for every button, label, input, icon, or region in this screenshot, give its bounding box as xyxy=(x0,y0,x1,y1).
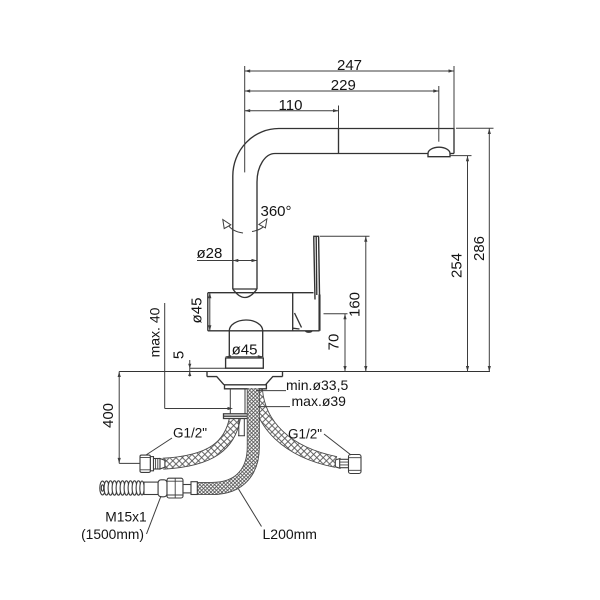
pull-out hose xyxy=(197,388,253,488)
neck right edge xyxy=(262,331,264,357)
arrows d28 xyxy=(233,259,239,262)
arrow max40 xyxy=(228,407,234,410)
aerator housing below spout xyxy=(428,154,450,157)
body bottom edge xyxy=(208,330,320,332)
neck left edge xyxy=(228,331,230,357)
rotation arc left xyxy=(228,225,243,234)
pull-out hose neck xyxy=(183,485,191,493)
leader G1/2 left xyxy=(146,438,172,455)
dim line 247 xyxy=(245,70,454,72)
svg-text:400: 400 xyxy=(100,403,117,428)
svg-text:ø28: ø28 xyxy=(197,245,223,262)
shank tube xyxy=(230,389,245,414)
spout outline outer edge xyxy=(233,129,454,290)
arrows 254 xyxy=(466,156,469,162)
swivel collar arc xyxy=(233,289,257,298)
svg-text:286: 286 xyxy=(471,236,488,261)
arrowheads xyxy=(118,69,491,463)
fitting nut right G1/2 xyxy=(349,455,362,474)
svg-text:247: 247 xyxy=(337,57,362,74)
mounting washer xyxy=(224,414,256,419)
fitting ring left G1/2 xyxy=(150,457,153,471)
svg-text:ø45: ø45 xyxy=(189,298,206,324)
pull-out head joint line xyxy=(338,129,340,154)
rotation arrowhead right xyxy=(259,219,267,228)
svg-text:ø45: ø45 xyxy=(232,342,258,359)
extension 70 top xyxy=(324,313,348,315)
body left edge xyxy=(207,293,209,331)
leader max d39 xyxy=(258,406,290,408)
svg-text:160: 160 xyxy=(347,292,364,317)
dim line d45 body xyxy=(209,293,211,331)
tube body joint line xyxy=(233,288,257,290)
fitting nipple right G1/2 xyxy=(340,459,349,467)
hose guide spring xyxy=(100,481,144,495)
arrows 110 xyxy=(245,109,251,112)
neck transition arc xyxy=(229,320,262,331)
leader min d33-5 xyxy=(256,390,286,392)
svg-text:110: 110 xyxy=(279,97,303,114)
fitting nut left G1/2 xyxy=(140,455,150,472)
escutcheon left edge xyxy=(206,372,208,377)
arrows 247 xyxy=(245,69,251,72)
handle lever inner line xyxy=(315,236,318,295)
cap right edge xyxy=(318,295,320,331)
leader G1/2 right xyxy=(324,434,351,455)
cap bottom dimple xyxy=(306,331,313,332)
dim line 5 xyxy=(189,360,191,377)
svg-text:(1500mm): (1500mm) xyxy=(81,527,144,542)
extension line spout axis xyxy=(244,66,246,172)
svg-text:G1/2": G1/2" xyxy=(173,426,207,441)
arrows 5 xyxy=(188,364,191,369)
svg-text:70: 70 xyxy=(326,334,343,351)
arrows 229 xyxy=(245,89,251,92)
dim line 70 xyxy=(344,314,346,372)
arrows 160 xyxy=(364,236,367,242)
svg-text:G1/2": G1/2" xyxy=(288,427,322,442)
arrows 70 xyxy=(343,314,346,320)
dim line 110 xyxy=(245,110,339,112)
fitting nipple left G1/2 xyxy=(154,459,161,470)
extension line aerator xyxy=(438,86,440,142)
cap bottom detail line xyxy=(293,327,300,330)
svg-text:min.ø33,5: min.ø33,5 xyxy=(286,377,348,393)
pull-out hose collar xyxy=(144,482,158,494)
arrows d45 body xyxy=(208,293,211,299)
escutcheon bottom left xyxy=(207,377,224,385)
extension line 110 joint xyxy=(338,106,340,129)
dim line 229 xyxy=(245,90,439,92)
fitting cone left G1/2 xyxy=(160,459,165,470)
body top edge xyxy=(208,292,314,294)
pull-out hose nut M15x1 xyxy=(167,478,183,498)
extension 5 upper xyxy=(190,367,226,369)
supply hose right xyxy=(257,390,336,462)
dim line 160 xyxy=(365,236,367,371)
escutcheon right edge xyxy=(282,372,284,377)
arrows 400 xyxy=(118,372,121,378)
pull-out hose end collar xyxy=(191,482,197,495)
base ring xyxy=(226,358,264,368)
escutcheon lower block xyxy=(225,385,267,389)
spout bottom edge right of aerator xyxy=(450,153,454,155)
supply hose left xyxy=(163,418,235,464)
dim line max40 xyxy=(165,303,230,409)
dim line d28 xyxy=(197,260,257,262)
extension 286 top xyxy=(456,127,494,129)
svg-text:max.ø39: max.ø39 xyxy=(292,393,347,409)
escutcheon bottom right xyxy=(266,377,283,385)
svg-text:M15x1: M15x1 xyxy=(105,510,146,525)
threaded stud xyxy=(238,419,245,436)
arrows 286 xyxy=(488,129,491,135)
svg-text:254: 254 xyxy=(449,253,466,278)
svg-text:360°: 360° xyxy=(261,203,292,220)
extension 254 top xyxy=(450,155,472,157)
extension line spout end xyxy=(453,66,455,129)
cartridge cap joint xyxy=(292,293,294,331)
pull-out hose olive xyxy=(158,480,167,497)
hoses group xyxy=(163,388,336,488)
dimension graphics xyxy=(119,66,493,534)
leader M15x1 xyxy=(147,496,162,534)
counter reference line xyxy=(119,371,490,373)
rotation arrowhead left xyxy=(223,220,231,229)
svg-text:L200mm: L200mm xyxy=(263,526,317,542)
aerator dome xyxy=(428,147,450,153)
svg-text:max. 40: max. 40 xyxy=(147,307,163,357)
rotation arc right xyxy=(252,224,266,232)
svg-text:5: 5 xyxy=(171,351,188,359)
svg-text:229: 229 xyxy=(331,77,356,94)
fitting cone right G1/2 xyxy=(335,459,340,469)
spout outline inner edge xyxy=(257,154,428,290)
handle lever xyxy=(314,236,320,299)
dim line 400 xyxy=(119,372,140,464)
extension 160 top xyxy=(320,235,370,237)
dim line 254 xyxy=(467,156,469,372)
cap wedge diagonal xyxy=(295,313,302,328)
dim line 286 xyxy=(488,129,490,372)
leader L200mm xyxy=(239,489,262,527)
dim line d45 base ring xyxy=(226,356,264,358)
arrows d45 ring xyxy=(226,355,232,358)
